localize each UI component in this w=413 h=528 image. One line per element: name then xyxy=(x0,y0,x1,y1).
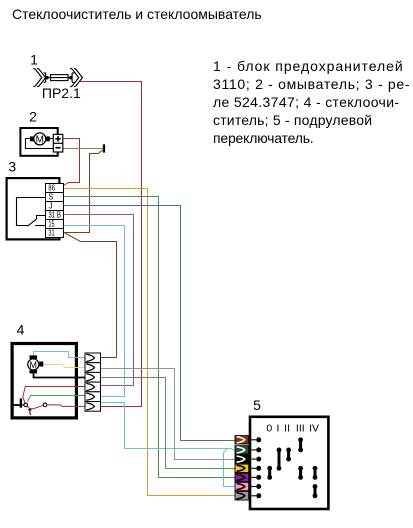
svg-text:15: 15 xyxy=(48,220,55,229)
svg-text:M: M xyxy=(36,135,44,146)
svg-text:II: II xyxy=(284,422,290,434)
svg-text:S: S xyxy=(48,193,53,202)
svg-text:3110; 2 - омыватель; 3 - ре-: 3110; 2 - омыватель; 3 - ре- xyxy=(213,76,410,92)
svg-text:4: 4 xyxy=(17,321,25,337)
svg-text:0: 0 xyxy=(266,422,272,434)
svg-text:31: 31 xyxy=(48,229,55,238)
svg-text:J: J xyxy=(49,202,53,211)
svg-text:M: M xyxy=(30,360,38,370)
svg-text:ле 524.3747; 4 - стеклоочи-: ле 524.3747; 4 - стеклоочи- xyxy=(213,94,399,110)
svg-text:1 - блок предохранителей: 1 - блок предохранителей xyxy=(213,58,404,74)
svg-text:31 B: 31 B xyxy=(48,211,61,220)
svg-text:IV: IV xyxy=(309,422,319,434)
svg-text:Стеклоочиститель и стеклоомыва: Стеклоочиститель и стеклоомыватель xyxy=(12,6,262,22)
svg-text:ститель; 5 - подрулевой: ститель; 5 - подрулевой xyxy=(213,112,372,128)
svg-text:5: 5 xyxy=(253,397,261,413)
svg-text:I: I xyxy=(276,422,279,434)
svg-text:3: 3 xyxy=(8,159,16,175)
svg-text:86: 86 xyxy=(48,184,55,193)
svg-text:ПР2.1: ПР2.1 xyxy=(42,85,81,101)
svg-text:переключатель.: переключатель. xyxy=(213,130,313,146)
svg-text:2: 2 xyxy=(29,109,37,125)
svg-text:III: III xyxy=(296,422,305,434)
svg-text:1: 1 xyxy=(30,52,38,68)
